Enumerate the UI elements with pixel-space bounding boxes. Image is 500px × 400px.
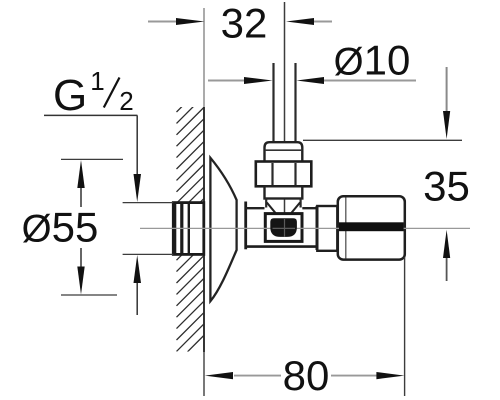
dimension 32 — [148, 21, 177, 23]
riser pipe — [272, 63, 274, 143]
svg-text:Ø55: Ø55 — [22, 204, 99, 251]
compression nut hex — [256, 162, 311, 187]
valve face square — [265, 214, 302, 242]
body shoulder chamfers — [267, 203, 300, 214]
svg-text:Ø10: Ø10 — [334, 37, 411, 84]
compression fitting cap — [265, 142, 303, 161]
wall hatching — [177, 85, 204, 363]
svg-text:80: 80 — [283, 352, 330, 399]
valve body bottom edge — [246, 245, 320, 248]
dimension 35 — [303, 139, 462, 141]
handle grip band — [339, 222, 404, 231]
dimension 80 — [404, 257, 406, 396]
dimension O10 — [208, 80, 245, 82]
riser pipe centerline — [284, 2, 286, 213]
svg-text:1: 1 — [90, 66, 104, 96]
svg-text:G: G — [53, 71, 87, 120]
valve body top edge — [246, 207, 317, 209]
escutcheon rim joint — [244, 202, 247, 250]
outlet nut — [317, 206, 337, 251]
dimension O55 — [61, 158, 123, 160]
axis centerline — [140, 227, 470, 229]
G thread tailpiece — [173, 203, 204, 255]
handle — [338, 196, 405, 259]
fitting lower collar — [265, 186, 303, 198]
centerline cross on face — [273, 219, 296, 237]
wall face line — [203, 8, 205, 107]
thread extension lines — [123, 202, 174, 204]
thread bottom arrow — [136, 283, 138, 315]
escutcheon bell — [210, 158, 236, 301]
svg-text:32: 32 — [221, 0, 268, 47]
valve body right edge — [316, 206, 320, 250]
svg-text:2: 2 — [119, 86, 133, 116]
valve seat dark oval — [270, 218, 297, 237]
svg-text:35: 35 — [423, 163, 470, 210]
